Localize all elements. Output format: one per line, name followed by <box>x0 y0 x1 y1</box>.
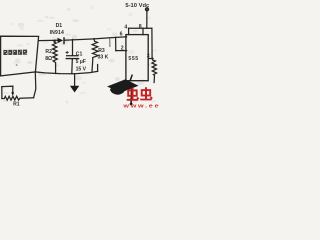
wire box to diode <box>39 39 58 41</box>
supply terminal circle <box>145 8 148 11</box>
svg-text:D1: D1 <box>56 23 63 29</box>
pin 8 stub <box>142 28 144 34</box>
stub artifact near node <box>109 38 111 46</box>
drop to pin 2 <box>115 37 117 50</box>
svg-text:www.ee: www.ee <box>122 104 160 110</box>
pin 4 stub <box>128 28 130 34</box>
svg-text:6: 6 <box>120 31 123 37</box>
wire diode to pin 6 <box>65 37 127 40</box>
svg-text:C1: C1 <box>76 52 83 58</box>
junction dot R2 tap <box>54 40 56 42</box>
V+ supply rail <box>129 27 152 29</box>
watermark chong character 1 <box>127 88 139 100</box>
capacitor C1 lead top <box>72 40 74 55</box>
watermark chong character 2 <box>140 87 152 99</box>
pin 2 stub <box>116 50 127 52</box>
capacitor C1 plates <box>66 55 79 56</box>
svg-text:R1: R1 <box>13 102 20 108</box>
svg-text:555: 555 <box>128 56 138 62</box>
svg-text:2: 2 <box>121 46 124 52</box>
watermark tassel <box>130 86 133 104</box>
ground symbol <box>70 86 79 93</box>
diode D1 <box>58 38 64 44</box>
output resistor R4 <box>152 58 157 82</box>
svg-text:4: 4 <box>124 25 127 31</box>
svg-text:3: 3 <box>147 54 150 60</box>
potentiometer R1 zigzag <box>2 96 34 100</box>
R1 wiper wire <box>2 86 13 92</box>
svg-text:33 K: 33 K <box>98 54 109 60</box>
svg-text:15 V: 15 V <box>76 66 87 72</box>
wiper arrow of R1 <box>11 92 14 96</box>
capacitor C1 lead bottom <box>71 59 74 73</box>
junction dot C1 tap <box>72 39 74 41</box>
svg-text:8Ω: 8Ω <box>45 56 52 62</box>
IC 555 box U1 <box>126 35 148 81</box>
bottom ground rail <box>35 71 97 73</box>
supply drop to output resistor node <box>151 28 153 58</box>
scan noise <box>2 5 157 103</box>
stray mark in box <box>16 64 18 66</box>
svg-text:IN914: IN914 <box>50 30 64 36</box>
svg-text:R2: R2 <box>45 49 52 55</box>
resistor R2 <box>52 41 57 74</box>
pin 3 stub <box>148 57 153 59</box>
svg-text:5 µF: 5 µF <box>76 59 86 65</box>
amplifier box U2 <box>1 36 39 76</box>
R1 left lead up <box>1 87 3 99</box>
C1 plus sign <box>66 51 69 54</box>
background <box>0 0 160 110</box>
svg-text:R3: R3 <box>98 48 105 54</box>
supply terminal lead <box>146 11 148 28</box>
watermark hat logo <box>107 74 139 94</box>
svg-text:5-10 Vdc: 5-10 Vdc <box>125 3 150 9</box>
junction dot supply tap <box>146 27 148 29</box>
svg-text:8: 8 <box>139 24 142 30</box>
rail hook at R3 <box>97 65 99 72</box>
junction dot pin3 node <box>151 57 153 59</box>
amplifier box chinese text (drawn glyph blobs) <box>3 50 27 55</box>
junction dot R3 tap <box>93 38 95 40</box>
resistor R3 <box>92 39 98 71</box>
R1 right lead up to rail <box>34 72 36 98</box>
ground stub <box>74 74 76 86</box>
